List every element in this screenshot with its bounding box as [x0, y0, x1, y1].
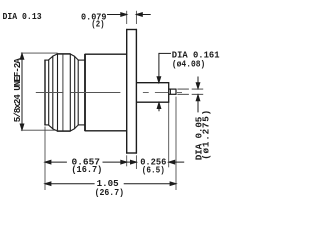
dim 0.079 extension lines: [127, 11, 137, 24]
dim 0.657 row: [45, 160, 184, 164]
knurl band right edge v6: [69, 54, 71, 132]
chamfer to neck upper: [75, 56, 79, 60]
neck front edge v8: [77, 60, 79, 125]
flange front face: [126, 29, 128, 154]
knurl band top edge: [57, 53, 70, 55]
chamfer upper-right: [70, 54, 75, 57]
body shoulder face: [84, 54, 86, 131]
front ring top tick: [44, 59, 48, 61]
body top edge: [85, 53, 127, 55]
centerline: [36, 92, 182, 94]
chamfer to neck lower: [75, 125, 79, 129]
svg-text:5/8x24 UNEF-2A: 5/8x24 UNEF-2A: [12, 58, 23, 123]
svg-text:(26.7): (26.7): [95, 187, 124, 198]
solder boss top edge: [136, 82, 169, 84]
svg-text:(ø4.08): (ø4.08): [172, 58, 205, 69]
knurl band bottom edge: [57, 130, 70, 132]
dia 0.05 dim arrows (right): [196, 77, 200, 113]
thread callout extension lines: [21, 53, 58, 130]
dim 0.079 arrows: [107, 13, 151, 17]
front ring bottom tick: [44, 124, 48, 126]
pin root line: [169, 89, 171, 94]
solder boss bottom edge: [136, 101, 169, 103]
connector front face: [44, 60, 46, 126]
svg-text:(2): (2): [91, 19, 104, 30]
flange bottom edge: [126, 152, 137, 154]
neck bottom edge: [78, 124, 85, 126]
flange top edge: [126, 29, 137, 31]
leader DIA 0.161: [157, 53, 171, 111]
pin end face: [175, 89, 177, 95]
nut rear edge v7: [74, 56, 76, 129]
flange rear face: [135, 29, 137, 154]
svg-text:(ø1.275): (ø1.275): [201, 110, 212, 160]
thread edge line v4: [57, 54, 59, 132]
thread edge line v3: [52, 56, 54, 129]
svg-text:(6.5): (6.5): [142, 165, 165, 176]
solder boss rear face: [168, 82, 170, 103]
chamfer upper-left: [48, 56, 53, 60]
pin top edge: [169, 88, 177, 90]
chamfer lower-right: [70, 129, 75, 132]
neck top edge: [78, 59, 85, 61]
pin diameter projection dashes: [177, 89, 203, 94]
pin bottom edge: [169, 93, 177, 95]
body bottom edge: [85, 130, 127, 132]
chamfer lower-left 2: [53, 129, 58, 132]
bottom dims extension lines: [45, 97, 176, 190]
knurl mid line (faint): [62, 54, 64, 130]
thread callout dimension line: [20, 54, 24, 130]
chamfer lower-left: [48, 125, 53, 129]
front ring rear edge: [48, 60, 50, 126]
svg-text:(16.7): (16.7): [71, 164, 102, 175]
chamfer upper-left 2: [53, 54, 58, 57]
svg-text:DIA 0.13: DIA 0.13: [3, 11, 42, 22]
dim 1.05 row: [45, 182, 176, 186]
